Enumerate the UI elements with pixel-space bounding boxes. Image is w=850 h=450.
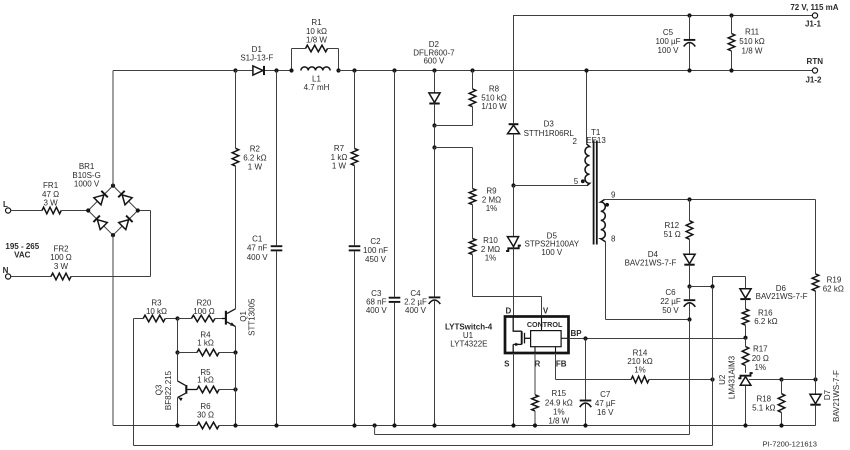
wire FB pin to R14 bbox=[556, 353, 632, 380]
label D6 BAV21WS-7-F bbox=[756, 284, 808, 301]
label PI-7200-121613 bbox=[763, 440, 817, 449]
svg-text:100 V: 100 V bbox=[541, 248, 563, 257]
svg-text:C2: C2 bbox=[370, 237, 381, 246]
label Q1 STT13005 bbox=[239, 298, 257, 336]
svg-text:D3: D3 bbox=[544, 120, 555, 129]
label R20 100 &#937; bbox=[193, 298, 215, 316]
node secondary return tap bbox=[373, 423, 377, 427]
svg-text:51 Ω: 51 Ω bbox=[664, 230, 681, 239]
label R19 62 k&#937; bbox=[823, 276, 844, 294]
label C3 68 nF 400 V bbox=[366, 289, 388, 315]
svg-text:R18: R18 bbox=[756, 395, 771, 404]
label D3 STTH1R06RL bbox=[524, 120, 575, 139]
svg-text:D7: D7 bbox=[823, 389, 832, 400]
svg-text:6.2 kΩ: 6.2 kΩ bbox=[754, 317, 777, 326]
bridge rectifier BR1 bbox=[86, 184, 140, 238]
wire FR2 to bridge right bbox=[71, 211, 151, 277]
node C5 top bbox=[687, 13, 691, 17]
svg-text:R16: R16 bbox=[758, 308, 773, 317]
svg-text:L: L bbox=[3, 200, 8, 209]
label U1 pin BP bbox=[570, 329, 582, 338]
svg-text:4.7 mH: 4.7 mH bbox=[304, 83, 330, 92]
node L1 left bbox=[289, 68, 293, 72]
svg-text:1 kΩ: 1 kΩ bbox=[197, 376, 214, 385]
wire L to FR1 bbox=[11, 210, 43, 212]
label U1 pin FB bbox=[556, 359, 567, 368]
svg-text:BAV21WS-7-F: BAV21WS-7-F bbox=[625, 259, 677, 268]
wire BP line bbox=[569, 338, 746, 340]
svg-text:30 Ω: 30 Ω bbox=[197, 411, 214, 420]
svg-text:1/8 W: 1/8 W bbox=[548, 417, 569, 426]
label R17 20 &#937; 1% bbox=[752, 345, 769, 372]
wire R14 to feedback node bbox=[649, 379, 713, 381]
fusible resistor FR2 bbox=[51, 273, 71, 280]
wire feedback riser bbox=[712, 287, 714, 446]
svg-text:PI-7200-121613: PI-7200-121613 bbox=[763, 440, 817, 449]
wire 72V line bbox=[514, 16, 813, 124]
label R2 6.2 k&#937; 1 W bbox=[243, 145, 266, 172]
wire R10 to V pin bbox=[473, 255, 542, 317]
svg-text:1/10 W: 1/10 W bbox=[481, 102, 507, 111]
node C4 ground bbox=[432, 423, 436, 427]
svg-text:400 V: 400 V bbox=[247, 253, 269, 262]
label R16 6.2 k&#937; bbox=[754, 308, 777, 326]
label C6 22 &#181;F 50 V bbox=[660, 288, 681, 315]
svg-text:C5: C5 bbox=[663, 28, 674, 37]
node R15 ground bbox=[533, 423, 537, 427]
resistor R15 bbox=[532, 395, 539, 411]
svg-text:5: 5 bbox=[574, 177, 579, 186]
label pin 5 bbox=[574, 177, 579, 186]
label R7 1 k&#937; 1 W bbox=[331, 144, 348, 171]
resistor R10 bbox=[469, 239, 476, 255]
svg-text:R20: R20 bbox=[197, 298, 212, 307]
label R4 1 k&#937; bbox=[197, 331, 214, 348]
wire U2 ref bbox=[749, 379, 782, 381]
diode D1 bbox=[253, 66, 264, 75]
node R5 right bbox=[233, 387, 237, 391]
svg-text:D: D bbox=[506, 306, 512, 315]
inductor L1 bbox=[301, 67, 330, 71]
node feedback R14 bbox=[710, 377, 714, 381]
label FR2 100 &#937; 3 W bbox=[50, 244, 72, 271]
svg-text:1/8 W: 1/8 W bbox=[306, 35, 327, 44]
node R18 ground bbox=[779, 423, 783, 427]
svg-text:1%: 1% bbox=[634, 366, 646, 375]
svg-text:S: S bbox=[504, 359, 510, 368]
svg-text:50 V: 50 V bbox=[662, 306, 679, 315]
capacitor C6 bbox=[684, 287, 696, 320]
U1 internal BP wire bbox=[561, 337, 568, 339]
wire S pin to ground bus bbox=[513, 353, 515, 426]
svg-text:FR2: FR2 bbox=[53, 244, 69, 253]
node R3 R20 bbox=[175, 316, 179, 320]
input terminal N bbox=[3, 266, 11, 279]
svg-text:BP: BP bbox=[570, 329, 582, 338]
node Q3 emitter ground bbox=[175, 423, 179, 427]
wire rail T1 to RTN bbox=[587, 70, 813, 72]
label L1 4.7 mH bbox=[304, 75, 330, 93]
svg-text:1%: 1% bbox=[485, 254, 497, 263]
svg-text:24.9 kΩ: 24.9 kΩ bbox=[545, 398, 573, 407]
svg-text:1%: 1% bbox=[755, 363, 767, 372]
resistor R1 bbox=[306, 45, 328, 52]
transistor Q1 bbox=[222, 309, 236, 327]
label U1 pin V bbox=[543, 306, 549, 315]
node D6 branch junction bbox=[710, 284, 714, 288]
svg-text:STT13005: STT13005 bbox=[248, 298, 257, 336]
wire Q1 emitter down bbox=[235, 327, 237, 353]
label R12 51 &#937; bbox=[664, 221, 681, 239]
capacitor C7 bbox=[580, 339, 592, 426]
svg-text:C7: C7 bbox=[600, 390, 611, 399]
resistor R4 bbox=[178, 349, 236, 356]
svg-text:1/8 W: 1/8 W bbox=[742, 47, 763, 56]
svg-text:100 nF: 100 nF bbox=[363, 246, 388, 255]
label R15 24.9 k&#937; 1% 1/8 W bbox=[545, 389, 573, 425]
node R9 branch bbox=[432, 145, 436, 149]
svg-text:EE13: EE13 bbox=[586, 136, 606, 145]
label J1-1 bbox=[805, 19, 822, 28]
label R14 210 k&#937; 1% bbox=[627, 349, 653, 375]
svg-text:R15: R15 bbox=[551, 389, 566, 398]
svg-text:400 V: 400 V bbox=[366, 306, 388, 315]
node C3 ground bbox=[392, 423, 396, 427]
svg-text:1000 V: 1000 V bbox=[74, 179, 100, 188]
svg-text:CONTROL: CONTROL bbox=[527, 320, 563, 329]
svg-text:47 µF: 47 µF bbox=[595, 399, 616, 408]
svg-text:STTH1R06RL: STTH1R06RL bbox=[524, 129, 575, 138]
wire FR1 to bridge bbox=[61, 210, 88, 212]
node D7 top bbox=[813, 377, 817, 381]
label 195 - 265 VAC bbox=[5, 242, 39, 260]
node T1 pin 2 bbox=[584, 68, 588, 72]
svg-text:VAC: VAC bbox=[14, 251, 31, 260]
node R6 right ground bbox=[233, 423, 237, 427]
svg-text:R10: R10 bbox=[483, 236, 498, 245]
svg-text:BAV21WS-7-F: BAV21WS-7-F bbox=[832, 370, 841, 422]
svg-text:1 W: 1 W bbox=[332, 162, 347, 171]
node R11 top bbox=[729, 13, 733, 17]
U1 internal MOSFET bbox=[513, 317, 530, 354]
svg-text:100 µF: 100 µF bbox=[655, 37, 680, 46]
label U1 pin S bbox=[504, 359, 510, 368]
label R11 510 k&#937; 1/8 W bbox=[739, 28, 765, 56]
svg-text:R11: R11 bbox=[745, 28, 760, 37]
svg-text:Q3: Q3 bbox=[155, 384, 164, 395]
label T1 EE13 bbox=[586, 128, 606, 145]
U1 internal FB wire bbox=[555, 347, 557, 353]
wire R17 to U2 bbox=[745, 366, 747, 373]
label D5 STPS2H100AY 100 V bbox=[525, 231, 580, 257]
ground bus left bbox=[113, 425, 197, 427]
svg-text:100 Ω: 100 Ω bbox=[193, 307, 215, 316]
node C6 bottom bbox=[687, 317, 691, 321]
wire to D1 bbox=[236, 70, 253, 72]
label pin 9 bbox=[611, 190, 616, 199]
svg-text:72 V, 115 mA: 72 V, 115 mA bbox=[790, 3, 838, 12]
wire junction to T1 pin 5 bbox=[514, 185, 588, 187]
ground bus right bbox=[219, 425, 816, 427]
svg-text:510 kΩ: 510 kΩ bbox=[481, 93, 507, 102]
wire R3 left column bbox=[133, 319, 135, 446]
label 72 V, 115 mA bbox=[790, 3, 838, 12]
svg-text:1%: 1% bbox=[486, 204, 498, 213]
label J1-2 bbox=[805, 75, 822, 84]
node R4 left bbox=[175, 350, 179, 354]
svg-text:1%: 1% bbox=[553, 408, 565, 417]
wire secondary return bbox=[375, 426, 690, 435]
svg-text:450 V: 450 V bbox=[365, 255, 387, 264]
label R5 1 k&#937; bbox=[197, 368, 214, 385]
svg-text:1 kΩ: 1 kΩ bbox=[331, 153, 348, 162]
output terminal J1-1 bbox=[812, 13, 817, 18]
svg-text:510 kΩ: 510 kΩ bbox=[739, 37, 765, 46]
label LYTSwitch-4 U1 LYT4322E bbox=[445, 322, 493, 348]
transformer T1 core bbox=[594, 141, 597, 245]
node U2 ground bbox=[743, 423, 747, 427]
diode D3 bbox=[508, 124, 520, 185]
node R18 top bbox=[779, 377, 783, 381]
resistor R6 bbox=[197, 422, 219, 429]
wire Q1 emitter column bbox=[235, 353, 237, 426]
capacitor C3 bbox=[389, 71, 401, 426]
T1 secondary phase dot bbox=[605, 203, 609, 207]
node C1 ground bbox=[274, 423, 278, 427]
resistor R5 bbox=[197, 386, 236, 393]
output terminal J1-2 bbox=[812, 68, 817, 73]
wire R4 column bbox=[177, 319, 179, 353]
node C6 top bbox=[687, 284, 691, 288]
label U2 LM431AIM3 bbox=[718, 355, 736, 399]
svg-text:R1: R1 bbox=[311, 18, 322, 27]
label R6 30 &#937; bbox=[197, 402, 214, 420]
svg-text:R8: R8 bbox=[489, 85, 500, 94]
svg-text:1 kΩ: 1 kΩ bbox=[197, 338, 214, 347]
svg-text:2 MΩ: 2 MΩ bbox=[482, 195, 501, 204]
fusible resistor FR1 bbox=[42, 207, 61, 214]
resistor R20 bbox=[178, 315, 223, 322]
resistor R18 bbox=[778, 380, 785, 426]
label R8 510 k&#937; 1/10 W bbox=[481, 85, 507, 111]
svg-text:5.1 kΩ: 5.1 kΩ bbox=[752, 404, 775, 413]
wire to R9 bbox=[435, 148, 473, 189]
svg-text:C1: C1 bbox=[252, 235, 263, 244]
wire pin 9 to output network bbox=[605, 199, 816, 201]
svg-text:N: N bbox=[3, 266, 9, 275]
U1 control block bbox=[531, 331, 562, 347]
resistor R1 parallel frame bbox=[292, 49, 339, 71]
diode D6 bbox=[740, 277, 751, 309]
wire C6 bottom to secondary return bbox=[689, 320, 691, 435]
svg-text:400 V: 400 V bbox=[405, 306, 427, 315]
svg-text:J1-2: J1-2 bbox=[805, 75, 822, 84]
shunt regulator U2 bbox=[738, 373, 752, 425]
diode D7 bbox=[810, 380, 821, 426]
wire bridge top to rail bbox=[113, 71, 236, 186]
wire rail L1 to T1 bbox=[339, 70, 587, 72]
label C1 47 nF 400 V bbox=[247, 235, 269, 262]
resistor R12 bbox=[686, 200, 693, 240]
label Q3 BF822.215 bbox=[155, 370, 173, 410]
wire R16 to BP node bbox=[745, 325, 747, 338]
label R18 5.1 k&#937; bbox=[752, 395, 775, 413]
resistor R9 bbox=[469, 189, 476, 205]
svg-text:2 MΩ: 2 MΩ bbox=[481, 245, 500, 254]
diode D2 bbox=[429, 71, 440, 126]
node BP R16 R17 bbox=[743, 336, 747, 340]
label U1 pin D bbox=[506, 306, 512, 315]
label R10 2 M&#937; 1% bbox=[481, 236, 500, 263]
U1 internal R wire bbox=[534, 347, 536, 353]
label D1 S1J-13-F bbox=[240, 45, 273, 62]
svg-text:LYT4322E: LYT4322E bbox=[450, 339, 487, 348]
wire Q3 emitter down bbox=[177, 398, 179, 426]
resistor R2 bbox=[232, 71, 239, 167]
label RTN bbox=[807, 57, 824, 66]
node D1 anode bbox=[233, 68, 237, 72]
resistor R3 bbox=[134, 315, 178, 322]
resistor R14 bbox=[631, 376, 649, 383]
wire pin 8 down bbox=[606, 242, 690, 320]
label D2 DFLR600-7 600 V bbox=[413, 40, 455, 66]
label D7 BAV21WS-7-F bbox=[823, 370, 841, 422]
diode D5 bbox=[506, 186, 521, 317]
svg-text:6.2 kΩ: 6.2 kΩ bbox=[243, 154, 266, 163]
label R3 10 k&#937; bbox=[146, 298, 167, 316]
svg-text:600 V: 600 V bbox=[423, 57, 445, 66]
svg-text:R6: R6 bbox=[200, 402, 211, 411]
label D4 BAV21WS-7-F bbox=[625, 250, 677, 267]
label FR1 47 &#937; 3 W bbox=[42, 181, 59, 207]
wire N to FR2 bbox=[11, 276, 52, 278]
svg-text:1 W: 1 W bbox=[248, 163, 263, 172]
label R9 2 M&#937; 1% bbox=[482, 187, 501, 214]
U1 internal V wire bbox=[541, 317, 543, 331]
node C2 ground bbox=[352, 423, 356, 427]
label C5 100 &#181;F 100 V bbox=[655, 28, 680, 55]
transformer T1 secondary winding bbox=[601, 200, 606, 242]
svg-text:20 Ω: 20 Ω bbox=[752, 354, 769, 363]
node R8 top bbox=[470, 68, 474, 72]
node C3 top bbox=[392, 68, 396, 72]
resistor R16 bbox=[742, 309, 749, 325]
IC U1 outline bbox=[505, 317, 569, 354]
resistor R17 bbox=[742, 347, 749, 366]
input terminal L bbox=[3, 200, 11, 213]
node R11 bottom bbox=[729, 68, 733, 72]
node D2 cathode junction bbox=[432, 123, 436, 127]
svg-text:FB: FB bbox=[556, 359, 567, 368]
svg-text:S1J-13-F: S1J-13-F bbox=[240, 53, 273, 62]
svg-text:10 kΩ: 10 kΩ bbox=[146, 307, 167, 316]
capacitor C2 bbox=[349, 166, 361, 426]
svg-text:J1-1: J1-1 bbox=[805, 19, 822, 28]
wire ref to right column bbox=[782, 379, 816, 381]
wire feedback bottom bbox=[134, 445, 713, 447]
wire bridge bottom to ground bus bbox=[112, 235, 114, 425]
node D2 anode bbox=[432, 68, 436, 72]
svg-text:100 V: 100 V bbox=[658, 46, 680, 55]
wire Q3 collector column bbox=[177, 353, 179, 381]
label U1 pin R bbox=[535, 359, 541, 368]
label C2 100 nF 450 V bbox=[363, 237, 388, 264]
node C5 bottom bbox=[687, 68, 691, 72]
svg-text:R19: R19 bbox=[827, 276, 842, 285]
svg-text:C6: C6 bbox=[665, 288, 676, 297]
svg-text:3 W: 3 W bbox=[43, 198, 58, 207]
label pin 2 bbox=[573, 137, 578, 146]
transistor Q3 bbox=[178, 381, 198, 401]
node L1 right bbox=[336, 68, 340, 72]
diode D4 bbox=[684, 239, 695, 286]
wire R pin bbox=[534, 353, 536, 395]
resistor R11 bbox=[728, 16, 735, 71]
svg-text:LM431AIM3: LM431AIM3 bbox=[727, 355, 736, 399]
label CONTROL bbox=[527, 320, 563, 329]
capacitor C1 bbox=[271, 71, 283, 426]
svg-text:R2: R2 bbox=[250, 145, 261, 154]
svg-text:22 µF: 22 µF bbox=[660, 297, 681, 306]
resistor R7 bbox=[351, 71, 358, 166]
svg-text:FR1: FR1 bbox=[43, 181, 59, 190]
svg-text:BAV21WS-7-F: BAV21WS-7-F bbox=[756, 292, 808, 301]
label R1 10 k&#937; 1/8 W bbox=[306, 18, 327, 44]
node C7 ground bbox=[583, 423, 587, 427]
svg-text:BF822.215: BF822.215 bbox=[164, 370, 173, 410]
capacitor C5 bbox=[684, 16, 696, 71]
wire to R17 bbox=[745, 338, 747, 347]
wire R9 to R10 bbox=[472, 205, 474, 239]
wire R8 bottom to D2 node bbox=[435, 107, 473, 126]
label pin 8 bbox=[611, 235, 616, 244]
label BR1 B10S-G 1000 V bbox=[72, 162, 100, 188]
capacitor C4 bbox=[429, 148, 441, 426]
T1 primary phase dot bbox=[581, 179, 585, 183]
wire T1 pin 2 bbox=[586, 71, 588, 144]
svg-text:R7: R7 bbox=[334, 144, 345, 153]
svg-text:V: V bbox=[543, 306, 549, 315]
wire R2 to Q1 collector bbox=[235, 166, 237, 309]
node BP junction C7 bbox=[583, 336, 587, 340]
svg-text:100 Ω: 100 Ω bbox=[50, 253, 72, 262]
wire D1 to L1 bbox=[265, 68, 292, 72]
wire D6 branch bbox=[690, 277, 746, 287]
node R12 top bbox=[687, 197, 691, 201]
svg-text:R17: R17 bbox=[753, 345, 768, 354]
right column with R19 bbox=[812, 200, 819, 380]
svg-text:R9: R9 bbox=[486, 187, 497, 196]
transformer T1 primary winding bbox=[585, 144, 590, 186]
svg-text:9: 9 bbox=[611, 190, 616, 199]
svg-text:3 W: 3 W bbox=[54, 262, 69, 271]
svg-text:RTN: RTN bbox=[807, 57, 824, 66]
svg-text:62 kΩ: 62 kΩ bbox=[823, 285, 844, 294]
node S pin ground bbox=[511, 423, 515, 427]
svg-text:R12: R12 bbox=[664, 221, 679, 230]
wire R15 to ground bus bbox=[534, 411, 536, 426]
resistor R8 bbox=[469, 71, 476, 107]
svg-text:R3: R3 bbox=[151, 298, 162, 307]
node pin 5 junction bbox=[511, 183, 515, 187]
node R4 right bbox=[233, 350, 237, 354]
svg-text:16 V: 16 V bbox=[597, 408, 614, 417]
label C7 47 &#181;F 16 V bbox=[595, 390, 616, 417]
wire D2 node down bbox=[434, 126, 436, 148]
label C4 2.2 &#181;F 400 V bbox=[404, 289, 427, 315]
node R7 top bbox=[352, 68, 356, 72]
svg-text:8: 8 bbox=[611, 235, 616, 244]
